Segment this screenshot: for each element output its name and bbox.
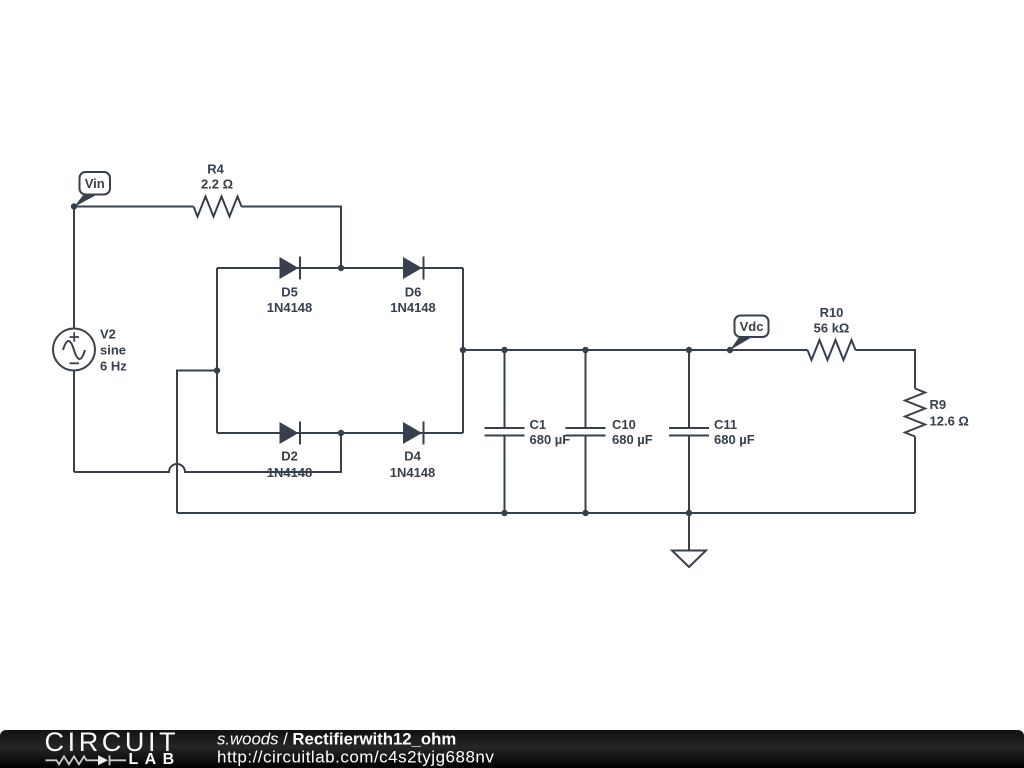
wire Vin to R4 (74, 206, 194, 208)
wire R10 to R9 (856, 350, 916, 389)
svg-text:D4: D4 (404, 448, 421, 463)
svg-text:680 µF: 680 µF (530, 432, 571, 447)
wire R9 to bottom rail (914, 437, 916, 514)
label R4 value (201, 161, 233, 191)
diode D4 (403, 422, 424, 445)
svg-text:R4: R4 (207, 161, 224, 176)
svg-text:1N4148: 1N4148 (390, 465, 436, 480)
node Vin junction dot (71, 203, 77, 209)
wire bottom rail (177, 512, 915, 514)
diode D2 (280, 422, 301, 445)
svg-text:sine: sine (100, 343, 126, 358)
wire V2 bottom lead (73, 371, 75, 473)
node bridge top center (338, 265, 344, 271)
svg-text:Vdc: Vdc (740, 319, 764, 334)
voltage source V2 (53, 329, 95, 371)
diode D5 (280, 257, 301, 280)
svg-text:1N4148: 1N4148 (267, 300, 313, 315)
svg-text:C1: C1 (530, 417, 547, 432)
logo resistor-diode symbol (46, 755, 127, 765)
label R9 value (930, 397, 969, 429)
svg-text:D5: D5 (281, 284, 298, 299)
resistor R9 (905, 389, 925, 437)
label D4 (390, 448, 436, 480)
svg-text:C11: C11 (714, 417, 737, 432)
wire bridge left vertical (216, 268, 218, 433)
label R10 value (814, 305, 850, 336)
net flag Vdc (727, 316, 769, 354)
svg-text:2.2 Ω: 2.2 Ω (201, 177, 233, 192)
node C10 top (582, 347, 588, 353)
node C10 bottom (582, 510, 588, 516)
svg-text:1N4148: 1N4148 (267, 465, 313, 480)
node bridge bottom center (338, 430, 344, 436)
node bridge left (214, 367, 220, 373)
svg-text:Vin: Vin (85, 176, 105, 191)
svg-text:LAB: LAB (129, 751, 181, 768)
wire output rail (463, 349, 808, 351)
svg-text:D2: D2 (281, 448, 298, 463)
node C11 top (686, 347, 692, 353)
resistor R10 (808, 340, 856, 360)
svg-text:http://circuitlab.com/c4s2tyjg: http://circuitlab.com/c4s2tyjg688nv (217, 748, 494, 767)
svg-text:680 µF: 680 µF (612, 432, 653, 447)
label C11 value (714, 417, 755, 447)
ground (672, 513, 706, 567)
capacitor C11 (669, 350, 709, 513)
net flag Vin (74, 172, 110, 207)
resistor R4 (194, 197, 242, 217)
label D6 (390, 284, 436, 315)
wire R4 to bridge top (242, 207, 342, 269)
node C11 bottom ground junction (686, 510, 692, 516)
label C1 value (530, 417, 571, 447)
svg-text:V2: V2 (100, 327, 116, 342)
diode D6 (403, 257, 424, 280)
label V2 value (100, 327, 127, 374)
svg-text:R9: R9 (930, 397, 947, 412)
footer bar (0, 730, 1024, 768)
wire V2 top lead (73, 207, 75, 329)
svg-text:1N4148: 1N4148 (390, 300, 436, 315)
node C1 top (501, 347, 507, 353)
svg-text:D6: D6 (405, 284, 422, 299)
svg-text:56 kΩ: 56 kΩ (814, 320, 850, 335)
label C10 value (612, 417, 653, 447)
svg-text:680 µF: 680 µF (714, 432, 755, 447)
capacitor C10 (566, 350, 606, 513)
node C1 bottom (501, 510, 507, 516)
svg-text:s.woods / Rectifierwith12_ohm: s.woods / Rectifierwith12_ohm (217, 730, 456, 749)
capacitor C1 (485, 350, 525, 513)
svg-text:C10: C10 (612, 417, 636, 432)
label D2 (267, 448, 313, 480)
wire bridge right vertical (462, 268, 464, 433)
node bridge right output (460, 347, 466, 353)
wire V2 return with hop (74, 433, 341, 472)
svg-text:R10: R10 (820, 305, 844, 320)
wire bridge bottom row (217, 432, 463, 434)
wire bridge top row (217, 267, 463, 269)
wire left return to bottom rail (177, 371, 217, 514)
svg-text:12.6 Ω: 12.6 Ω (930, 413, 969, 428)
svg-text:6 Hz: 6 Hz (100, 358, 127, 373)
label D5 (267, 284, 313, 315)
